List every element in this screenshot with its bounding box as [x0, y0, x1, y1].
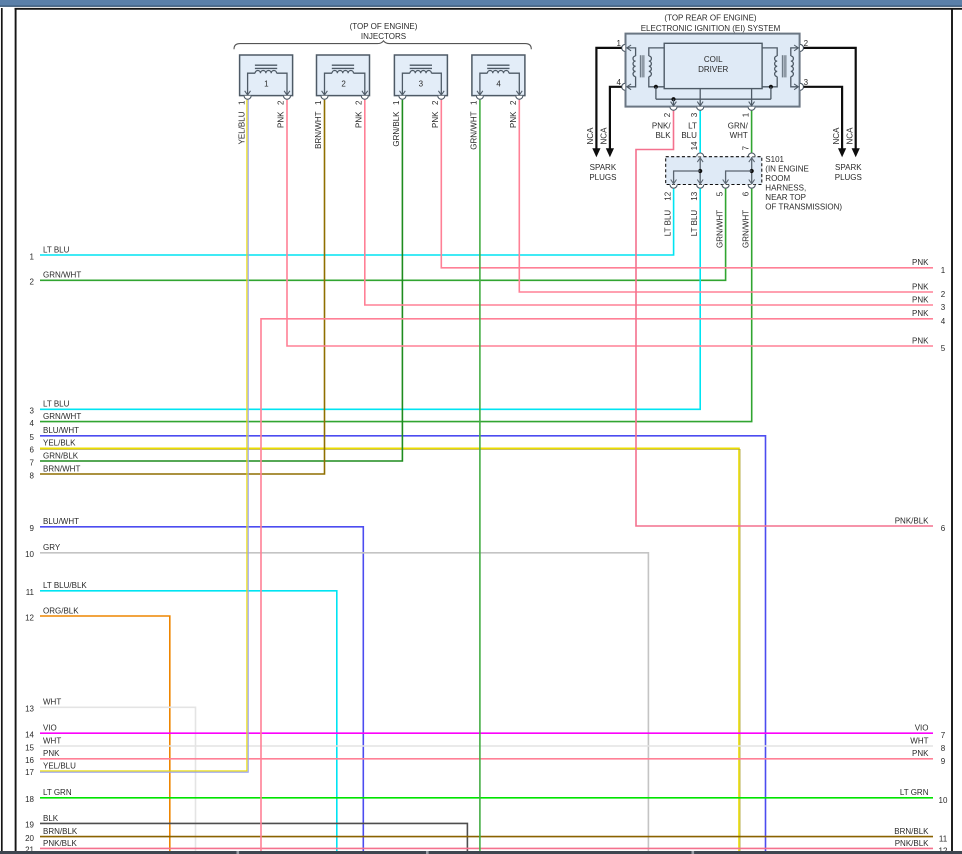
- svg-text:11: 11: [26, 588, 35, 597]
- electronic ignition system outer box: [626, 34, 800, 107]
- svg-text:PLUGS: PLUGS: [835, 173, 862, 182]
- svg-text:14: 14: [690, 141, 699, 150]
- S101 pin 6 connector: [748, 185, 755, 189]
- svg-text:2: 2: [355, 100, 364, 105]
- svg-text:GRN/: GRN/: [728, 121, 749, 130]
- svg-text:PNK: PNK: [509, 111, 518, 128]
- svg-text:7: 7: [741, 145, 750, 150]
- svg-text:PNK: PNK: [431, 111, 440, 128]
- spark plug wire from EI pin 1: [596, 48, 621, 149]
- wire BRN/WHT left row 8 to injector 2 pin 1: [40, 100, 325, 474]
- svg-text:11: 11: [939, 835, 948, 844]
- svg-text:6: 6: [30, 446, 35, 455]
- wire PNK right row 1 from injector 3 pin 2: [441, 100, 933, 268]
- svg-text:1: 1: [30, 252, 35, 261]
- svg-text:PNK/BLK: PNK/BLK: [895, 516, 929, 525]
- svg-text:1: 1: [237, 100, 246, 105]
- EI pin 1 (left top, to spark plugs): [627, 45, 631, 51]
- svg-text:NCA: NCA: [600, 127, 609, 145]
- ignition coil T1 (left transformer): [627, 48, 664, 99]
- wire BLK left row 19: [40, 823, 467, 851]
- svg-text:PLUGS: PLUGS: [589, 173, 616, 182]
- svg-text:PNK: PNK: [912, 282, 929, 291]
- wire PNK/BLK right row 6 from coil driver pin 2: [636, 111, 933, 526]
- wire GRN/WHT left row 4 to S101 pin 6: [40, 189, 752, 422]
- svg-text:4: 4: [496, 79, 501, 88]
- svg-text:15: 15: [25, 743, 34, 752]
- svg-text:1: 1: [314, 100, 323, 105]
- svg-text:13: 13: [690, 191, 699, 200]
- EI pin 3 (right bottom, to spark plugs): [794, 84, 798, 90]
- wire YEL/BLU row 17 blue strand: [40, 100, 248, 772]
- wire PNK row 16 across to right row 9: [40, 758, 933, 760]
- EI pin 2 (right top, to spark plugs): [794, 45, 798, 51]
- svg-text:2: 2: [277, 100, 286, 105]
- wire PNK right row 2 from injector 4 pin 2: [519, 100, 933, 292]
- EI bottom pin 3 LT BLU connector: [697, 107, 704, 111]
- svg-text:3: 3: [30, 407, 35, 416]
- svg-text:13: 13: [25, 705, 34, 714]
- wire YEL/BLU left row 17 to injector 1 pin 1 (yellow strand): [40, 100, 247, 771]
- svg-text:ROOM: ROOM: [765, 174, 790, 183]
- wire LT BLU coil driver pin 3 to S101 pin 14: [699, 111, 701, 153]
- svg-text:GRN/WHT: GRN/WHT: [715, 210, 724, 248]
- EI bottom pin 1 GRN/WHT connector: [748, 107, 755, 111]
- svg-text:5: 5: [941, 344, 946, 353]
- top title-bar strip: [0, 0, 962, 6]
- svg-text:2: 2: [509, 100, 518, 105]
- svg-text:3: 3: [419, 79, 424, 88]
- wire PNK right row 4 dropping to bottom: [261, 319, 933, 851]
- svg-text:3: 3: [941, 303, 946, 312]
- splice S101 box: [666, 157, 762, 185]
- svg-text:WHT: WHT: [730, 131, 748, 140]
- svg-text:8: 8: [941, 744, 946, 753]
- left panel divider line: [1, 8, 3, 851]
- wire GRN/WHT injector 4 pin 1 to bottom: [479, 100, 481, 851]
- wire GRN/WHT coil driver pin 1 to S101 pin 7: [751, 111, 753, 153]
- wire PNK/BLK row 21 across to right row 12: [40, 847, 933, 849]
- svg-text:HARNESS,: HARNESS,: [765, 183, 806, 192]
- svg-text:PNK/BLK: PNK/BLK: [895, 839, 929, 848]
- wire GRN/WHT left row 2 to S101 pin 5: [40, 189, 726, 281]
- spark plug wire from EI pin 4: [610, 87, 622, 149]
- svg-text:SPARK: SPARK: [835, 163, 862, 172]
- svg-text:GRN/WHT: GRN/WHT: [43, 412, 81, 421]
- svg-text:2: 2: [30, 278, 35, 287]
- svg-text:ORG/BLK: ORG/BLK: [43, 606, 79, 615]
- S101 internal links: [671, 157, 755, 183]
- svg-text:YEL/BLU: YEL/BLU: [43, 761, 76, 770]
- brace over injectors: [234, 41, 531, 49]
- S101 pin 13 connector: [697, 185, 704, 189]
- wire GRN/BLK left row 7 to injector 3 pin 1: [40, 100, 402, 461]
- svg-text:WHT: WHT: [43, 698, 61, 707]
- svg-text:YEL/BLK: YEL/BLK: [43, 439, 76, 448]
- wire PNK right row 3 from injector 2 pin 2: [365, 100, 933, 305]
- svg-text:LT GRN: LT GRN: [900, 788, 929, 797]
- svg-text:LT BLU/BLK: LT BLU/BLK: [43, 581, 87, 590]
- svg-text:BLU: BLU: [681, 131, 697, 140]
- svg-text:2: 2: [663, 112, 672, 117]
- svg-text:GRN/WHT: GRN/WHT: [43, 271, 81, 280]
- svg-text:DRIVER: DRIVER: [698, 65, 728, 74]
- svg-text:9: 9: [941, 757, 946, 766]
- injector 3: [392, 55, 447, 147]
- svg-text:COIL: COIL: [704, 55, 723, 64]
- svg-text:1: 1: [941, 266, 946, 275]
- svg-text:PNK: PNK: [43, 749, 60, 758]
- svg-text:3: 3: [804, 78, 809, 87]
- svg-text:BLK: BLK: [655, 131, 671, 140]
- svg-text:BLK: BLK: [43, 814, 59, 823]
- svg-text:14: 14: [25, 731, 34, 740]
- svg-text:NEAR TOP: NEAR TOP: [765, 193, 806, 202]
- svg-text:5: 5: [30, 433, 35, 442]
- svg-text:WHT: WHT: [910, 736, 928, 745]
- svg-text:NCA: NCA: [845, 127, 854, 145]
- svg-text:9: 9: [30, 524, 35, 533]
- diagram frame border: [15, 8, 962, 10]
- ignition coil T2 (right transformer): [762, 48, 798, 99]
- coil driver U1 box: [664, 43, 762, 88]
- svg-text:19: 19: [25, 821, 34, 830]
- svg-text:LT BLU: LT BLU: [663, 210, 672, 237]
- svg-text:VIO: VIO: [43, 724, 57, 733]
- svg-text:S101: S101: [765, 155, 784, 164]
- wire LT GRN row 18 across to right row 10: [40, 797, 933, 799]
- svg-text:WHT: WHT: [43, 736, 61, 745]
- svg-text:OF TRANSMISSION): OF TRANSMISSION): [765, 202, 842, 211]
- wire BLU/WHT left row 9: [40, 527, 363, 851]
- svg-text:PNK: PNK: [355, 111, 364, 128]
- svg-text:12: 12: [663, 191, 672, 200]
- wire PNK right row 5 from injector 1 pin 2: [287, 100, 933, 346]
- svg-text:1: 1: [470, 100, 479, 105]
- svg-text:PNK: PNK: [912, 295, 929, 304]
- svg-text:4: 4: [30, 419, 35, 428]
- svg-text:NCA: NCA: [832, 127, 841, 145]
- svg-text:PNK: PNK: [277, 111, 286, 128]
- svg-text:VIO: VIO: [915, 724, 929, 733]
- svg-text:7: 7: [30, 458, 35, 467]
- wire WHT left row 13: [40, 707, 196, 851]
- svg-text:PNK: PNK: [912, 336, 929, 345]
- wire LT BLU left row 3 to S101 pin 13: [40, 189, 700, 410]
- svg-text:GRY: GRY: [43, 543, 61, 552]
- svg-text:6: 6: [941, 524, 946, 533]
- svg-text:LT GRN: LT GRN: [43, 788, 72, 797]
- svg-text:SPARK: SPARK: [590, 163, 617, 172]
- svg-text:18: 18: [25, 795, 34, 804]
- svg-text:PNK: PNK: [912, 258, 929, 267]
- injector 2: [314, 55, 369, 149]
- svg-text:PNK: PNK: [912, 309, 929, 318]
- svg-text:17: 17: [25, 768, 34, 777]
- svg-text:5: 5: [715, 191, 724, 196]
- bottom status/scroll bar: [0, 851, 962, 854]
- svg-text:LT BLU: LT BLU: [690, 210, 699, 237]
- svg-text:ELECTRONIC IGNITION (EI) SYSTE: ELECTRONIC IGNITION (EI) SYSTEM: [641, 24, 781, 33]
- spark plug wire from EI pin 2: [804, 48, 856, 149]
- svg-text:GRN/BLK: GRN/BLK: [43, 451, 79, 460]
- svg-text:(TOP REAR OF ENGINE): (TOP REAR OF ENGINE): [664, 14, 756, 23]
- spark plug wire from EI pin 3: [804, 87, 843, 149]
- svg-text:YEL/BLU: YEL/BLU: [237, 111, 246, 144]
- svg-text:3: 3: [690, 112, 699, 117]
- wire ORG/BLK left row 12: [40, 616, 170, 851]
- svg-text:8: 8: [30, 471, 35, 480]
- svg-text:BRN/BLK: BRN/BLK: [894, 827, 929, 836]
- S101 pin 7 connector: [748, 153, 755, 157]
- EI pin 4 (left bottom, to spark plugs): [627, 84, 631, 90]
- svg-text:16: 16: [25, 756, 34, 765]
- wire WHT row 15 across to right row 8: [40, 745, 933, 747]
- wire BRN/BLK row 20 across to right row 11: [40, 836, 933, 838]
- svg-text:1: 1: [264, 79, 269, 88]
- svg-text:2: 2: [431, 100, 440, 105]
- svg-text:10: 10: [939, 796, 948, 805]
- wire GRY left row 10: [40, 553, 648, 851]
- svg-text:20: 20: [25, 834, 34, 843]
- svg-text:INJECTORS: INJECTORS: [361, 32, 406, 41]
- wire LT BLU/BLK left row 11: [40, 591, 337, 851]
- svg-text:GRN/BLK: GRN/BLK: [392, 111, 401, 147]
- svg-text:1: 1: [741, 112, 750, 117]
- injector 4: [470, 55, 525, 150]
- S101 pin 5 connector: [722, 185, 729, 189]
- svg-text:GRN/WHT: GRN/WHT: [741, 210, 750, 248]
- S101 pin 12 connector: [670, 185, 677, 189]
- svg-text:PNK/BLK: PNK/BLK: [43, 839, 77, 848]
- svg-text:BLU/WHT: BLU/WHT: [43, 517, 79, 526]
- svg-text:NCA: NCA: [586, 127, 595, 145]
- svg-text:LT: LT: [688, 121, 697, 130]
- svg-text:PNK/: PNK/: [652, 121, 671, 130]
- svg-text:2: 2: [341, 79, 346, 88]
- svg-text:GRN/WHT: GRN/WHT: [470, 111, 479, 149]
- svg-text:LT BLU: LT BLU: [43, 400, 70, 409]
- svg-text:(IN ENGINE: (IN ENGINE: [765, 164, 809, 173]
- svg-text:2: 2: [941, 290, 946, 299]
- svg-text:2: 2: [804, 39, 809, 48]
- svg-text:(TOP OF ENGINE): (TOP OF ENGINE): [350, 22, 418, 31]
- svg-text:BRN/WHT: BRN/WHT: [314, 111, 323, 148]
- internal ground bus of EI box: [656, 98, 771, 100]
- svg-text:BLU/WHT: BLU/WHT: [43, 426, 79, 435]
- svg-text:BRN/WHT: BRN/WHT: [43, 464, 80, 473]
- svg-text:PNK: PNK: [912, 749, 929, 758]
- svg-text:7: 7: [941, 731, 946, 740]
- wire BLU/WHT left row 5: [40, 436, 766, 851]
- EI bottom pin 2 PNK/BLK connector: [670, 107, 677, 111]
- S101 pin 14 connector: [697, 153, 704, 157]
- svg-text:4: 4: [941, 317, 946, 326]
- svg-text:BRN/BLK: BRN/BLK: [43, 827, 78, 836]
- wire YEL/BLK left row 6: [40, 448, 739, 851]
- svg-text:6: 6: [741, 191, 750, 196]
- svg-text:1: 1: [392, 100, 401, 105]
- svg-text:LT BLU: LT BLU: [43, 245, 70, 254]
- svg-text:12: 12: [25, 613, 34, 622]
- wire VIO row 14 across to right row 7: [40, 732, 933, 734]
- wire LT BLU left row 1 to S101 pin 12: [40, 189, 674, 255]
- injector 1: [237, 55, 292, 144]
- svg-text:10: 10: [25, 550, 34, 559]
